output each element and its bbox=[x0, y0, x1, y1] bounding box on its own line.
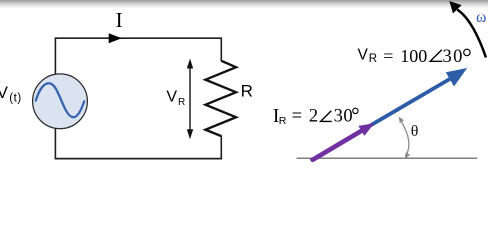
svg-text:I: I bbox=[116, 8, 123, 32]
wire: right bottom lead from resistor bbox=[220, 136, 222, 160]
svg-text:=: = bbox=[292, 107, 302, 127]
svg-text:2: 2 bbox=[309, 107, 318, 127]
svg-text:=: = bbox=[383, 46, 393, 66]
svg-text:ω: ω bbox=[476, 9, 486, 26]
wire: bottom horizontal rail bbox=[55, 158, 223, 160]
AC source sine wave bbox=[36, 83, 84, 117]
svg-text:R: R bbox=[279, 115, 287, 127]
wire: top horizontal (source to resistor) bbox=[55, 38, 221, 74]
svg-text:R: R bbox=[178, 97, 185, 108]
svg-text:R: R bbox=[369, 53, 377, 65]
svg-text:30: 30 bbox=[443, 47, 464, 67]
label I_R = 2∠30° bbox=[273, 106, 358, 127]
svg-text:100: 100 bbox=[400, 46, 427, 66]
label V_R = 100∠30° bbox=[358, 46, 471, 67]
svg-text:V: V bbox=[0, 84, 8, 102]
phasor baseline (reference axis) bbox=[297, 157, 478, 159]
AC source V(t) circle bbox=[33, 74, 88, 129]
voltage arrow V_R (double headed) bbox=[187, 59, 193, 140]
resistor R zigzag bbox=[206, 61, 237, 136]
wire: right top lead into resistor bbox=[220, 37, 222, 61]
svg-text:(t): (t) bbox=[9, 93, 22, 105]
svg-text:θ: θ bbox=[411, 123, 419, 140]
phasor V_R (blue arrow) bbox=[358, 68, 467, 133]
svg-text:R: R bbox=[241, 81, 253, 100]
svg-text:V: V bbox=[358, 47, 369, 64]
svg-text:V: V bbox=[166, 89, 177, 106]
phasor I_R (purple arrow) bbox=[311, 123, 375, 161]
rotation arrow ω (curved) bbox=[457, 10, 486, 58]
angle arc for θ bbox=[399, 117, 410, 159]
wire: left bottom (source to bottom rail) bbox=[54, 128, 56, 158]
svg-text:30: 30 bbox=[334, 107, 354, 127]
current arrowhead on top wire bbox=[109, 33, 122, 43]
